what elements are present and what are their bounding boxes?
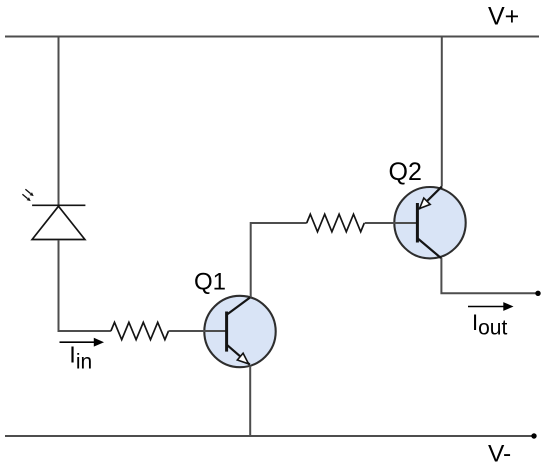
node output terminal dot	[535, 291, 540, 296]
wire V+ rail to photodiode	[58, 36, 60, 206]
photodiode D1 light arrows	[22, 189, 33, 201]
arrow Iin	[60, 339, 103, 345]
transistor Q1 collector line	[227, 297, 251, 315]
wire V+ rail	[5, 36, 539, 38]
wire R1 to Q1 base	[169, 330, 229, 332]
transistor Q2 collector line	[418, 239, 442, 259]
transistor Q1 emitter arrowhead	[237, 353, 248, 364]
wire Q1 collector up to corner	[251, 223, 307, 298]
resistor R1	[111, 322, 169, 339]
wire photodiode to corner	[59, 240, 111, 331]
svg-text:V-: V-	[488, 441, 511, 467]
svg-text:Iout: Iout	[472, 310, 507, 340]
transistor Q2 base bar	[416, 203, 419, 243]
resistor R2	[307, 214, 365, 232]
transistor Q1 emitter line	[227, 345, 250, 365]
wire Q1 emitter down to V- rail	[249, 366, 251, 438]
wire V- rail	[5, 435, 534, 437]
wire Q2 collector to output terminal	[441, 258, 538, 293]
svg-text:V+: V+	[488, 3, 519, 31]
svg-text:Iin: Iin	[69, 342, 92, 374]
arrow Iout	[468, 303, 512, 309]
node V- rail end dot	[531, 433, 536, 438]
transistor Q2 body	[394, 187, 465, 258]
wire R2 to Q2 base	[365, 222, 418, 224]
transistor Q2 emitter arrowhead	[420, 198, 431, 209]
transistor Q2 emitter line	[419, 186, 442, 209]
svg-text:Q2: Q2	[389, 158, 422, 186]
transistor Q1 body	[204, 296, 275, 367]
transistor Q1 base bar	[225, 312, 228, 352]
wire Q2 emitter up to V+ rail	[441, 36, 443, 187]
svg-text:Q1: Q1	[194, 269, 226, 296]
photodiode D1	[32, 205, 85, 239]
